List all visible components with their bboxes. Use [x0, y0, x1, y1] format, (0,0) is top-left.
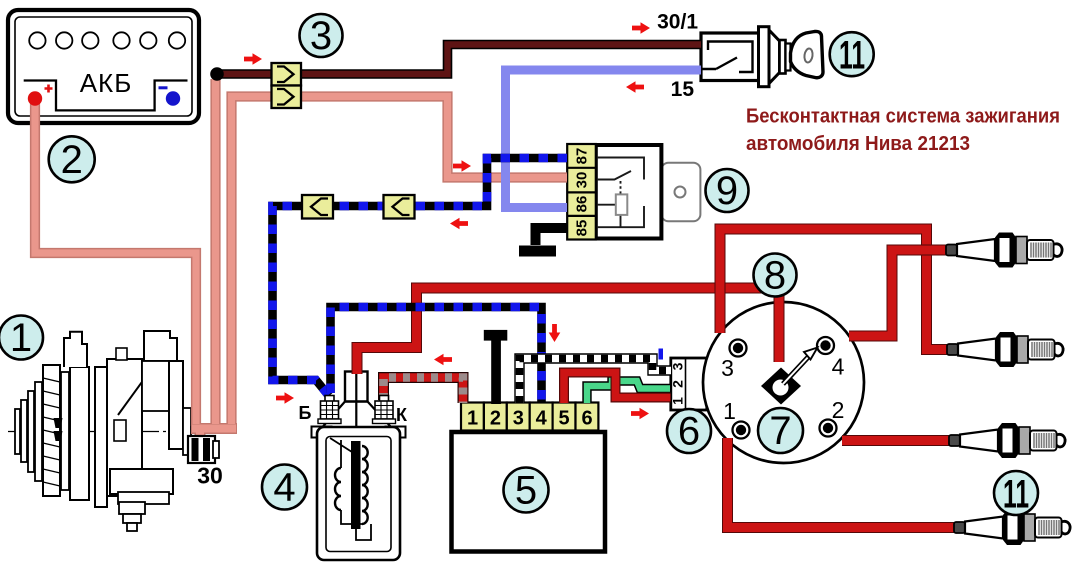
svg-text:3: 3 — [513, 408, 524, 430]
svg-text:6: 6 — [678, 410, 700, 454]
ignition switch (item 11) — [701, 27, 823, 87]
svg-text:2: 2 — [670, 380, 686, 388]
blue tick near connector6 pin3 — [659, 349, 664, 360]
pin numbers 1-6 — [467, 408, 593, 430]
black ground wire from relay 85 — [536, 228, 568, 245]
spark plug 2 — [947, 332, 1063, 367]
red HV wire distributor terminal 3 to spark plug 2 — [720, 229, 947, 350]
svg-text:Бесконтактная система зажигани: Бесконтактная система зажигания — [746, 106, 1060, 128]
svg-text:К: К — [396, 405, 408, 425]
svg-text:Б: Б — [299, 403, 312, 423]
svg-text:5: 5 — [515, 469, 537, 513]
red HV wire coil tower to label 8 junction and distributor center — [357, 288, 779, 374]
arrow from switch 15 — [626, 81, 644, 93]
unit 5 connector pins 1-6 — [461, 403, 598, 431]
svg-text:3: 3 — [310, 14, 332, 58]
svg-text:85: 85 — [574, 220, 591, 237]
svg-text:30: 30 — [197, 463, 223, 489]
svg-text:автомобиля Нива 21213: автомобиля Нива 21213 — [746, 133, 970, 155]
svg-text:86: 86 — [574, 196, 591, 213]
spark plug 1 (top) — [946, 233, 1062, 268]
callout circle 3 connector — [300, 14, 343, 58]
arrow on wire K to unit5 — [434, 354, 452, 366]
relay connector pins 87 30 86 85 — [567, 144, 596, 240]
svg-text:1: 1 — [467, 408, 478, 430]
node junction on battery feed — [210, 67, 224, 81]
svg-text:7: 7 — [769, 409, 791, 453]
white-black dashed wire unit5 pin3 to connector6 pin3 — [520, 359, 672, 404]
callout circle 6 connector — [667, 409, 711, 454]
connector block (item 6) pins 1 2 3 — [670, 358, 707, 410]
arrow to connector6 — [631, 408, 649, 420]
arrow on dashed wire to coil — [450, 218, 468, 230]
svg-text:9: 9 — [716, 169, 738, 213]
pink wire generator junction to relay pin 30 — [232, 97, 568, 427]
spark plug 3 — [949, 423, 1065, 458]
distributor rotor — [761, 348, 818, 405]
svg-text:8: 8 — [764, 254, 786, 298]
coil terminal bolt К — [373, 396, 396, 424]
svg-text:3: 3 — [670, 362, 686, 370]
callout circle 4 coil — [262, 465, 307, 510]
distributor terminal 4 — [817, 337, 845, 380]
ignition key — [791, 31, 824, 77]
blue-black dashed wire coil Б to unit5 pin4 — [331, 307, 542, 403]
callout circle 7 distributor — [758, 408, 803, 453]
svg-text:1: 1 — [670, 397, 686, 405]
svg-text:30: 30 — [574, 172, 591, 189]
svg-text:АКБ: АКБ — [80, 68, 133, 98]
battery АКБ (item 2) — [8, 10, 199, 123]
electronic control unit (item 5) — [452, 432, 606, 552]
callout circle 5 control unit — [504, 468, 549, 513]
svg-text:4: 4 — [832, 354, 845, 380]
connector on Б wire (left) — [302, 195, 333, 219]
svg-text:2: 2 — [61, 138, 83, 182]
svg-text:87: 87 — [574, 148, 591, 165]
blue-black dashed wire relay 87 to coil Б — [273, 158, 568, 396]
callout circle 2 battery — [49, 136, 95, 182]
green wire unit5 pin6 to connector6 pin2 — [587, 381, 670, 403]
callout circle 1 generator — [0, 316, 43, 361]
red HV wire distributor terminal 4 to spark plug 1 — [849, 250, 947, 336]
dark red wire node to ignition switch 30/1 — [217, 45, 701, 75]
distributor terminal 1 — [723, 398, 749, 439]
svg-text:4: 4 — [536, 408, 548, 430]
connector pair item 3 on feed wires — [272, 63, 302, 108]
callout circle 9 relay — [706, 169, 749, 213]
svg-text:11: 11 — [1003, 473, 1029, 517]
battery negative terminal — [166, 91, 180, 105]
arrow down to unit5 pin4 — [549, 324, 561, 342]
svg-text:4: 4 — [273, 466, 295, 510]
distributor terminal 2 — [820, 397, 845, 437]
svg-text:30/1: 30/1 — [657, 11, 698, 34]
red-grey dashed wire coil K to unit5 pin1 — [384, 378, 464, 404]
callout circle 11 ignition switch — [830, 32, 874, 77]
arrow at coil Б — [276, 392, 294, 404]
svg-text:1: 1 — [723, 398, 736, 424]
svg-text:3: 3 — [721, 355, 734, 381]
arrow to switch 30/1 — [632, 22, 650, 34]
black stub wire into unit5 pin2 — [484, 330, 508, 341]
blue wire ignition switch 15 to relay 86 — [506, 70, 702, 208]
distributor terminal 3 — [721, 340, 746, 382]
svg-text:5: 5 — [559, 408, 570, 430]
ignition coil (item 4) — [312, 372, 406, 561]
ground symbol — [519, 246, 556, 257]
arrow into relay — [453, 160, 471, 172]
coil terminal bolt Б — [318, 396, 341, 424]
svg-text:2: 2 — [832, 397, 845, 423]
connector on Б wire (right) — [384, 195, 415, 219]
alternator output terminal 30 — [188, 436, 219, 463]
red HV wire distributor terminal 1 to spark plug 4 — [728, 438, 955, 528]
relay (item 9) body — [596, 145, 662, 239]
arrow current direction on feed wire — [244, 53, 262, 65]
distributor (item 7) — [703, 302, 864, 463]
callout circle 11 spark plugs — [994, 471, 1038, 517]
generator/alternator (item 1) — [8, 331, 205, 531]
pink wire battery + to alternator 30 — [35, 79, 567, 439]
relay (item 9) mounting tab — [661, 163, 700, 222]
svg-text:11: 11 — [839, 34, 865, 78]
svg-text:6: 6 — [581, 408, 592, 430]
battery positive terminal — [28, 91, 42, 105]
red wire unit5 pin5 to connector6 pin1 — [564, 373, 671, 404]
spark plug 4 — [954, 510, 1070, 545]
relay internal contacts — [596, 158, 644, 228]
callout circle 8 HV wire — [754, 254, 797, 298]
red HV wire distributor terminal 2 to spark plug 3 — [842, 435, 949, 446]
svg-text:15: 15 — [671, 78, 695, 101]
svg-text:1: 1 — [10, 316, 32, 360]
svg-text:2: 2 — [490, 408, 501, 430]
relay coil — [616, 194, 628, 215]
